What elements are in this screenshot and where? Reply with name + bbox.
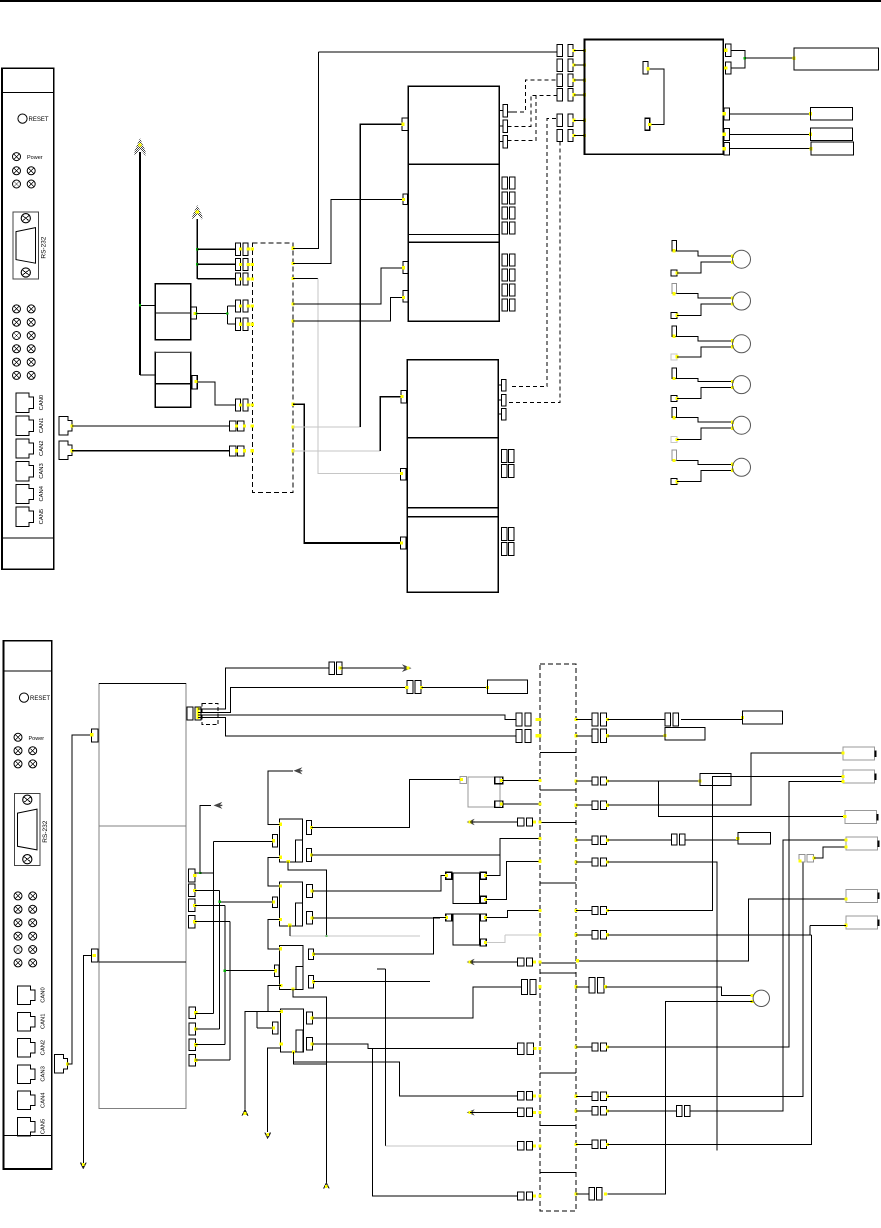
riser M2 tabA	[380, 397, 401, 451]
M1 tab1	[402, 118, 408, 130]
RS-232 DB9 connector	[14, 794, 40, 866]
wire E1 to connector pads	[195, 312, 197, 314]
K14 right tab2	[306, 1038, 312, 1050]
wire to box K3	[729, 133, 810, 135]
lamp H1	[733, 250, 751, 268]
relay K14	[280, 1009, 303, 1052]
harness W2 internal wire	[540, 962, 576, 964]
V2 right tab1	[480, 914, 486, 921]
lamp H4 return connector	[671, 396, 677, 402]
lamp H1 input connector	[672, 241, 677, 251]
K14 right tab1	[306, 1012, 312, 1024]
connector R12	[574, 1109, 577, 1112]
wire R13 riser	[608, 935, 812, 1145]
connector R7	[574, 909, 577, 912]
harness W1 right pin	[291, 425, 294, 428]
svg-text:RS-232: RS-232	[41, 236, 48, 258]
wire K11 rt1 to V0	[312, 780, 461, 828]
power LED grid 2x2	[13, 167, 21, 175]
block V0	[468, 777, 500, 807]
block V2	[453, 914, 480, 945]
G1 left tab2	[92, 949, 99, 962]
K14 common drop to up arrow A6	[293, 1052, 326, 1184]
wire E2 to connector X6	[197, 382, 235, 405]
connector R8	[574, 933, 577, 936]
connector L6	[518, 1043, 525, 1055]
connector X4	[236, 300, 241, 312]
lamp H4	[733, 376, 751, 394]
lamp H3 return connector	[671, 354, 677, 360]
connector X8	[230, 446, 237, 456]
connector R2	[574, 734, 577, 737]
chain K13 to K14	[268, 986, 281, 1012]
V0 right tab2	[495, 801, 503, 808]
wire V0 to W2 r4	[503, 803, 540, 805]
wire G5 riser	[578, 899, 847, 961]
harness W2 internal wire	[540, 1125, 576, 1127]
harness W2 internal wire	[540, 822, 576, 824]
wire R10 riser to G2 pin2	[608, 782, 844, 1047]
CAN0-CAN5 jacks	[18, 986, 36, 1005]
K14 tab feed from chain	[256, 1012, 258, 1028]
harness W2 internal wire	[540, 1072, 576, 1074]
wire to box K4	[729, 148, 811, 150]
wire fan w1 to arrow right	[198, 668, 329, 709]
stub arrow L3	[467, 819, 475, 825]
lamp H3 input connector	[672, 326, 677, 336]
wire CAN2 to connector X8	[72, 450, 230, 452]
connector R14	[574, 1192, 577, 1195]
wire R1 to box B3	[608, 719, 666, 721]
svg-text:CAN4: CAN4	[39, 485, 45, 501]
plug P3 on CAN3	[55, 1055, 68, 1074]
lamp H4 input connector	[672, 368, 677, 378]
connector R10	[574, 1045, 577, 1048]
connector L10	[518, 1192, 524, 1200]
box B4	[665, 728, 705, 741]
dashed drop X9 r6 to M3 pin2	[509, 141, 560, 402]
drop to L10	[373, 1049, 518, 1196]
RESET button	[19, 693, 28, 702]
chain K11 to K12	[268, 857, 280, 886]
connector R5	[574, 839, 577, 842]
LED grid 6x2	[14, 892, 22, 900]
G1 left tab1	[92, 729, 99, 742]
wire to box K2	[729, 113, 810, 115]
main controller block B1	[585, 40, 724, 155]
lamp H7	[753, 990, 769, 1006]
lamp H6 wires	[677, 461, 733, 465]
lamp H2 input connector	[672, 283, 677, 293]
lamp H4 wires	[677, 379, 733, 382]
wire W1 to vertical riser to X9 row1	[293, 52, 319, 248]
block E2 (transceiver)	[155, 352, 190, 407]
dashed link M1a pin1 to X9 r3	[508, 111, 514, 113]
svg-text:RS-232: RS-232	[42, 820, 49, 842]
K13 right tab1	[308, 949, 313, 960]
lamp H2 wires	[677, 294, 733, 298]
connector X3	[236, 273, 241, 285]
net bankA r4 / bankB r4	[195, 921, 230, 923]
wire P3 to W2 tab1	[68, 735, 92, 1064]
box B5	[700, 774, 731, 786]
svg-text:CAN2: CAN2	[41, 1040, 47, 1055]
wire A1 down to ECU blocks	[139, 152, 141, 375]
connector L8	[518, 1108, 524, 1116]
E1 output tab	[191, 307, 197, 319]
harness W1 right pin	[291, 403, 294, 406]
device front panel outline	[2, 68, 54, 569]
wire R12 with inline pair to G4 pin1	[608, 1110, 677, 1112]
RESET button	[18, 114, 27, 123]
svg-text:CAN1: CAN1	[41, 1014, 47, 1029]
K14 left tab	[273, 1022, 278, 1034]
M1 tab3	[403, 262, 408, 274]
gray bus at 936	[290, 935, 420, 937]
connector R11	[574, 1095, 577, 1098]
arrow stub to L8	[467, 1109, 475, 1115]
V1 right tab1	[480, 872, 486, 879]
svg-text:CAN1: CAN1	[39, 418, 45, 433]
K11 right tab1	[306, 821, 311, 835]
M1a right connectors	[499, 110, 503, 112]
connector R4	[574, 804, 577, 807]
gateway block G1 (large)	[99, 684, 186, 1109]
M2 tabC	[401, 537, 406, 549]
antenna arrow A2	[192, 205, 202, 220]
connector column X9 (dual rows of pairs)	[557, 44, 562, 56]
B1 internal jumper	[643, 62, 648, 74]
dashed link M1a pin2 to X9 r4	[508, 96, 558, 127]
harness W1 right pin	[291, 319, 294, 322]
connector L7	[518, 1092, 524, 1100]
wire K12 rt1 to V1	[312, 876, 446, 892]
connector L4	[518, 958, 524, 966]
module stack M1 (3 I/O modules)	[408, 86, 499, 321]
wire K14 rt2 to L6	[312, 1044, 517, 1049]
connector X6	[236, 399, 241, 411]
dashed highlight box	[202, 703, 218, 724]
svg-text:CAN2: CAN2	[39, 440, 45, 455]
svg-text:CAN3: CAN3	[39, 463, 45, 478]
box B6	[738, 833, 771, 845]
harness W2 internal wire	[540, 972, 576, 974]
K13 right tab2	[308, 976, 313, 989]
Power LED	[14, 733, 22, 741]
harness W2 internal wire	[540, 882, 576, 884]
M2 tabA	[401, 391, 407, 403]
connector X7	[230, 421, 237, 431]
connector R13	[574, 1143, 577, 1146]
G1 connector bank B	[189, 1007, 196, 1019]
wire R6 drop	[608, 862, 717, 1151]
wire top bus to X9 row1	[319, 51, 558, 53]
wire V1 tr riser to W2	[486, 839, 540, 876]
lamp H5 input connector	[672, 407, 677, 417]
connector L5 (tall pair)	[522, 979, 528, 994]
lamp H1 wires	[677, 251, 733, 256]
lamp H6	[733, 458, 751, 476]
wire W1 gray to M1 tab1 riser	[293, 426, 360, 428]
connector L2	[516, 729, 522, 742]
riser M1 tab1	[360, 124, 402, 427]
wire R8 to G6 riser	[608, 934, 812, 936]
wire lamp H7 return to R14	[608, 1002, 753, 1194]
connector R3	[574, 779, 577, 782]
harness W2 internal wire	[540, 1172, 576, 1174]
Power LED	[13, 153, 21, 161]
wire fan w2 to pair X12 and box B2	[198, 688, 407, 713]
wire fan w3 to L1	[198, 715, 516, 720]
relay K13	[280, 945, 303, 989]
M1c right connector group 2x4	[502, 254, 507, 266]
LED grid 6x2	[13, 305, 21, 313]
wire bankA r1 riser + left arrow	[195, 805, 211, 873]
wire fan w4 to L2	[198, 717, 516, 735]
wire K14 rt1 to L5	[312, 987, 521, 1018]
K13 common drop to up-arrow	[293, 989, 326, 1064]
M1b right connector group 2x4	[502, 177, 507, 189]
wire R2 to box B4	[608, 735, 666, 737]
wire CAN1 to connector X7	[72, 425, 230, 427]
RS-232 DB9 connector	[13, 212, 39, 279]
lamp H2	[733, 292, 751, 310]
G1 right pair connector	[187, 707, 193, 720]
wire W1 to M1 tab3	[293, 268, 403, 304]
svg-text:CAN0: CAN0	[39, 395, 45, 410]
branch to X1	[196, 248, 198, 250]
harness W1 right pin	[291, 247, 294, 250]
K12 right tab1	[306, 885, 312, 898]
V2 right tab2	[480, 939, 486, 946]
box K4	[811, 142, 854, 155]
K12 left tab	[273, 897, 278, 908]
wire W1 gray to M2 tabB	[293, 278, 318, 280]
plug P2 on CAN2	[59, 441, 72, 460]
wire R7 riser to G2	[608, 776, 844, 910]
wire W1 to M1 tab2	[293, 200, 403, 264]
connector X2	[236, 258, 241, 270]
svg-text:CAN5: CAN5	[41, 1119, 47, 1134]
branch R3 to box G3	[658, 781, 844, 817]
lamp H5 wires	[677, 418, 733, 423]
dashed drop X9 r5 to M3 pin1	[509, 118, 556, 386]
antenna arrow A1	[135, 138, 146, 156]
box K2	[811, 108, 853, 120]
svg-text:CAN0: CAN0	[41, 987, 47, 1002]
gray riser to L9	[377, 968, 386, 970]
wire V1 br to W2 r6	[486, 861, 540, 899]
device front panel outline	[4, 641, 52, 1169]
wire to block E2	[140, 374, 155, 376]
B1 right connector r4	[724, 129, 729, 141]
wire V2 tr to W2 r7	[486, 911, 540, 918]
B1 right connector r1	[726, 44, 731, 57]
M1 tab4	[403, 291, 408, 302]
wire R11 riser to pair X20	[608, 862, 803, 1096]
wire K13 rt1 to V2	[314, 918, 446, 955]
actuator box G2	[843, 770, 875, 783]
B1 right connector r3	[724, 108, 729, 120]
wire K11 rt2 to V1 riser	[312, 854, 500, 856]
wire R9 to lamp H7	[606, 987, 753, 996]
block E1 (transceiver)	[155, 284, 190, 340]
svg-text:CAN3: CAN3	[41, 1066, 47, 1081]
V0 left tab	[460, 776, 467, 783]
actuator box G3	[845, 811, 877, 824]
lamp H5 return connector	[671, 437, 677, 443]
net bankA r2 / K12 tab / bankB r2	[195, 889, 220, 891]
actuator box G5	[846, 889, 878, 902]
B1 right connector r2	[726, 62, 731, 74]
box B3	[743, 711, 783, 724]
block V1	[453, 873, 480, 904]
V2 left tab	[446, 914, 452, 921]
box K3	[811, 128, 853, 140]
K12 common drop	[289, 925, 291, 936]
E2 output tab	[192, 376, 197, 390]
cable harness W2 (dashed tall)	[540, 664, 576, 1211]
V1 left tab	[446, 872, 452, 879]
wire W1 to M2 tabC	[293, 404, 401, 543]
harness W1 right pin	[291, 277, 294, 280]
connector L1	[516, 713, 522, 726]
plug P1 on CAN1	[59, 417, 72, 436]
M2b right connector group 2x2	[502, 449, 508, 462]
K11 right tab2	[306, 849, 311, 862]
power LED grid 2x2	[14, 747, 22, 755]
wire A2 trunk	[196, 219, 198, 279]
feed arrow into relay chain	[294, 767, 303, 774]
module stack M2 (3 blocks)	[407, 360, 498, 593]
M1 tab2	[403, 194, 408, 205]
wire W1 gray to M2 tabA riser	[293, 450, 380, 452]
connector L3	[518, 818, 524, 826]
V1 right tab2	[480, 896, 486, 903]
wire tab2 down to arrow	[83, 956, 91, 1168]
G1 connector bank A	[188, 869, 195, 882]
lamp H1 return connector	[671, 270, 677, 276]
harness W2 internal wire	[540, 752, 576, 754]
svg-text:RESET: RESET	[30, 696, 50, 702]
connector R6	[574, 860, 577, 863]
wire R4 up to box G1r	[608, 753, 844, 805]
branch to X3	[197, 278, 235, 280]
B1 right connector r5	[724, 143, 729, 155]
svg-text:Power: Power	[29, 736, 45, 742]
wire V2 br gray to W2 r8	[486, 935, 505, 943]
harness W2 internal wire	[540, 789, 576, 791]
net bankA r3 / K13 tab / bankB r3	[195, 904, 225, 906]
K11 left tab	[273, 834, 278, 847]
wire G6 stub	[810, 924, 846, 926]
connector X1	[236, 243, 241, 255]
svg-text:RESET: RESET	[29, 117, 49, 123]
connector X5	[236, 318, 241, 330]
wire bankB drop to L7	[293, 1062, 517, 1096]
wire X20 to G4 pin2	[814, 847, 846, 858]
branch to X2	[196, 263, 198, 265]
harness W1 right pin	[291, 302, 294, 305]
cable harness W1 (dashed)	[252, 243, 293, 493]
M2a right connectors	[498, 384, 501, 386]
K14 chain side drop to up arrow A4	[245, 1012, 280, 1110]
wire W1 to M1 tab4	[293, 298, 403, 321]
box PSU	[794, 48, 878, 70]
svg-text:CAN5: CAN5	[39, 509, 45, 524]
chain K12 to K13	[268, 920, 280, 949]
pair X20	[799, 855, 805, 863]
actuator box G4	[846, 837, 878, 850]
M2 tabB	[401, 469, 406, 480]
harness W1 right pin	[291, 449, 294, 452]
actuator box G1r	[843, 747, 875, 760]
harness W1 right pin	[291, 262, 294, 265]
stub arrow L4	[467, 959, 475, 965]
K13 left tab	[275, 965, 280, 977]
wire V0 to W2 r3	[503, 779, 540, 781]
relay K12	[280, 882, 303, 926]
wire to block E1	[140, 304, 155, 306]
svg-text:CAN4: CAN4	[41, 1092, 47, 1108]
actuator box G6	[846, 916, 878, 929]
K14 left drop to down arrow A5	[268, 1048, 281, 1132]
lamp H6 return connector	[671, 479, 677, 485]
net bankA r1 / K11 tab / bankB r1	[200, 873, 213, 1013]
lamp H3 wires	[677, 336, 733, 341]
K12 right tab2	[306, 912, 312, 925]
K11 common drop	[288, 862, 326, 937]
wire K12 rt2 stub	[312, 917, 440, 919]
V0 right tab1	[495, 777, 503, 784]
box B2	[488, 680, 528, 694]
CAN0-CAN5 jacks	[16, 393, 34, 412]
pair X12	[407, 681, 413, 694]
relay K11	[280, 819, 303, 862]
connector R1	[574, 718, 577, 721]
wire B1 to PSU box	[731, 50, 745, 68]
dashed link M1a pin3	[508, 96, 537, 141]
connector L9	[518, 1142, 524, 1150]
connector R9 (tall pair)	[574, 985, 577, 988]
lamp H2 return connector	[671, 312, 677, 318]
wire R3 to box B5	[608, 780, 701, 782]
M2c right connector group 2x2	[502, 527, 508, 540]
arrow down A3	[81, 1163, 87, 1169]
top black border bar	[0, 0, 881, 2]
lamp H6 input connector	[672, 450, 677, 460]
lamp H5	[733, 416, 751, 434]
svg-text:Power: Power	[27, 155, 43, 161]
wire R5 to box B6	[608, 839, 672, 841]
wire K13 rt2 stub	[314, 981, 431, 983]
lamp H3	[733, 335, 751, 353]
